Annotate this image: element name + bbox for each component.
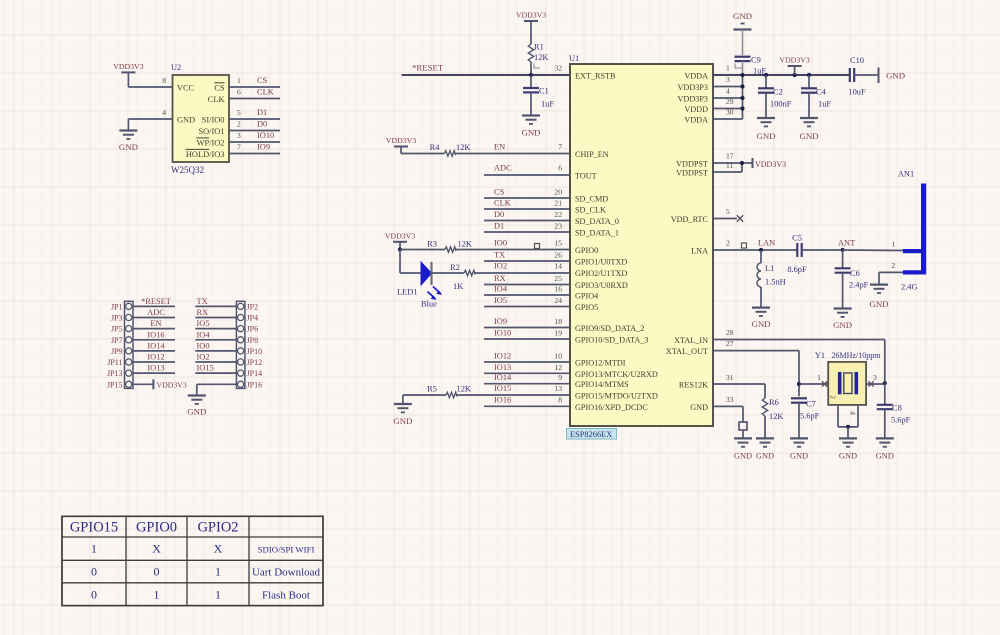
label JP16 [247, 380, 263, 389]
wire U2 pin 3 net IO10 [229, 131, 280, 142]
svg-text:X: X [214, 542, 223, 556]
svg-text:SD_DATA_1: SD_DATA_1 [575, 229, 619, 238]
svg-text:3: 3 [873, 373, 877, 382]
svg-text:TOUT: TOUT [575, 172, 597, 181]
svg-text:CLK: CLK [208, 95, 225, 104]
svg-text:GND: GND [799, 131, 818, 141]
svg-text:RES12K: RES12K [679, 381, 708, 390]
resistor R6 12K [713, 373, 783, 438]
ground bar (C10) [874, 68, 905, 84]
capacitor C8 5.6pF [877, 383, 911, 438]
svg-text:D0: D0 [494, 210, 504, 219]
boot mode table [62, 516, 323, 605]
wire IO15 (right header row 7) [195, 364, 236, 374]
wire TX net (pin 26) [484, 251, 570, 262]
svg-text:GND: GND [734, 452, 752, 461]
svg-text:IO15: IO15 [197, 364, 214, 373]
ground (U2) [119, 131, 138, 153]
svg-text:XTAL_OUT: XTAL_OUT [666, 347, 708, 356]
wire IO14 (left header row 5) [133, 341, 175, 351]
wire U2 pin 5 net D1 [229, 108, 280, 119]
resistor R1 12K [528, 33, 548, 75]
svg-text:EN: EN [494, 143, 505, 152]
wire VDD bus (pin 1 row) [713, 64, 849, 76]
svg-text:GPIO3/U0RXD: GPIO3/U0RXD [575, 281, 628, 290]
svg-text:GND: GND [756, 452, 774, 461]
wire CS net (pin 20) [484, 188, 570, 199]
svg-text:GND: GND [393, 416, 412, 426]
ground (antenna) 2.4G [869, 283, 917, 310]
svg-text:GPIO15: GPIO15 [70, 520, 118, 536]
svg-text:15: 15 [554, 239, 562, 248]
svg-text:20: 20 [554, 188, 562, 197]
wire RX net (pin 25) [484, 274, 570, 285]
svg-text:29: 29 [726, 97, 734, 106]
svg-text:R6: R6 [769, 398, 779, 407]
svg-text:IO2: IO2 [197, 353, 210, 362]
svg-text:GND: GND [833, 320, 852, 330]
svg-text:10: 10 [554, 352, 562, 361]
wire ADC net [484, 164, 570, 176]
wire CLK net (pin 21) [484, 199, 570, 210]
svg-text:3: 3 [726, 75, 730, 84]
svg-text:R5: R5 [427, 385, 437, 394]
pad (pin 33) [739, 422, 747, 438]
wire IO10 net (pin 19) [484, 329, 570, 340]
wire RX (right header row 2) [195, 308, 236, 318]
svg-text:SO/IO1: SO/IO1 [198, 127, 224, 136]
flash chip U2 W25Q32 [171, 63, 229, 175]
capacitor C9 1uF [735, 56, 767, 76]
resistor R2 1K [431, 263, 570, 291]
svg-text:JP9: JP9 [111, 347, 123, 356]
svg-text:ADC: ADC [147, 308, 165, 317]
svg-text:3: 3 [237, 131, 241, 140]
ground (R5) [393, 404, 412, 426]
svg-text:8: 8 [162, 76, 166, 85]
ground (JP16) [187, 396, 206, 417]
label JP11 [107, 358, 122, 367]
svg-text:JP4: JP4 [247, 314, 259, 323]
table row Uart Download [91, 565, 321, 579]
svg-text:6: 6 [237, 88, 241, 97]
wire IO12 (left header row 6) [133, 353, 175, 363]
wire IO5 net (pin 24) [484, 296, 570, 307]
svg-text:L1: L1 [765, 264, 774, 273]
ground (R6) [756, 438, 774, 460]
wire IO12 net (pin 10) [484, 352, 570, 363]
svg-text:GND: GND [790, 452, 808, 461]
svg-text:R2: R2 [450, 263, 460, 272]
svg-text:12: 12 [554, 363, 562, 372]
svg-text:24: 24 [554, 296, 562, 305]
svg-text:GND: GND [733, 11, 752, 21]
svg-text:13: 13 [554, 384, 562, 393]
label JP6 [247, 325, 259, 334]
node junction R1/C1/RESET [529, 73, 533, 77]
label JP8 [247, 336, 259, 345]
svg-text:U1: U1 [569, 54, 579, 63]
capacitor C4 1uF [801, 75, 831, 118]
wire XTAL_IN (pin 28) [713, 328, 885, 383]
svg-text:1: 1 [215, 565, 221, 579]
label JP7 [111, 336, 123, 345]
svg-text:*RESET: *RESET [412, 63, 444, 73]
wire IO13 (left header row 7) [133, 364, 175, 374]
svg-text:Y1: Y1 [815, 351, 825, 360]
svg-text:33: 33 [726, 395, 734, 404]
svg-text:GPIO0: GPIO0 [575, 246, 598, 255]
svg-text:IO4: IO4 [197, 330, 211, 339]
svg-text:VDD3V3: VDD3V3 [755, 160, 786, 169]
svg-text:100nF: 100nF [770, 100, 792, 109]
svg-text:2: 2 [829, 395, 838, 399]
svg-text:D0: D0 [257, 120, 267, 129]
label IO2 net [494, 262, 562, 271]
svg-text:1: 1 [91, 542, 97, 556]
resistor R5 12K [403, 385, 484, 405]
capacitor C5 8.6pF [787, 234, 840, 275]
wire *RESET (left header row 1) [133, 297, 175, 307]
node junction C6/ANT [838, 239, 855, 253]
svg-text:JP10: JP10 [247, 347, 263, 356]
svg-text:VDD3V3: VDD3V3 [113, 62, 143, 71]
wire LED anode [400, 250, 421, 274]
svg-text:Uart Download: Uart Download [252, 567, 321, 579]
ground (C9 top) [733, 11, 752, 55]
wire IO15 net [484, 384, 570, 395]
svg-text:CHIP_EN: CHIP_EN [575, 150, 609, 159]
svg-text:2: 2 [891, 261, 895, 270]
power port VDD3V3 (U2) [113, 62, 143, 87]
svg-text:LAN: LAN [758, 239, 775, 248]
svg-text:1: 1 [215, 588, 221, 602]
svg-text:IO9: IO9 [257, 143, 270, 152]
svg-text:26MHz/10ppm: 26MHz/10ppm [832, 351, 882, 360]
svg-text:VDD3V3: VDD3V3 [157, 380, 187, 389]
svg-text:GPIO0: GPIO0 [136, 520, 177, 536]
wire IO0 net [484, 239, 570, 250]
svg-text:EXT_RSTB: EXT_RSTB [575, 72, 616, 81]
svg-text:31: 31 [726, 373, 734, 382]
svg-text:VDDD: VDDD [684, 105, 708, 114]
power port VDD3V3 (LED1) [385, 231, 415, 249]
label JP13 [107, 369, 123, 378]
svg-text:4: 4 [849, 411, 858, 415]
ground (C4) [799, 118, 818, 141]
svg-text:WP/IO2: WP/IO2 [197, 139, 225, 148]
svg-text:X: X [152, 542, 161, 556]
svg-text:GPIO13/MTCK/U2RXD: GPIO13/MTCK/U2RXD [575, 370, 658, 379]
svg-text:18: 18 [554, 317, 562, 326]
svg-text:C10: C10 [850, 56, 864, 65]
svg-text:JP14: JP14 [247, 369, 263, 378]
svg-text:17: 17 [726, 152, 734, 161]
svg-text:C7: C7 [806, 400, 816, 409]
svg-text:IO5: IO5 [197, 319, 210, 328]
svg-text:*RESET: *RESET [141, 297, 171, 306]
svg-text:GPIO2/U1TXD: GPIO2/U1TXD [575, 269, 627, 278]
wire crystal pins 2/4 to GND [829, 395, 859, 438]
svg-text:JP7: JP7 [111, 336, 123, 345]
svg-text:VDDPST: VDDPST [676, 169, 708, 178]
svg-text:IO10: IO10 [494, 329, 511, 338]
svg-text:Blue: Blue [421, 300, 437, 309]
svg-text:D1: D1 [257, 108, 267, 117]
svg-text:GPIO12/MTDI: GPIO12/MTDI [575, 359, 626, 368]
svg-text:12K: 12K [458, 240, 472, 249]
svg-text:11: 11 [726, 161, 734, 170]
svg-text:JP15: JP15 [107, 380, 123, 389]
svg-text:C8: C8 [892, 404, 902, 413]
node junction C8/crystal pin 3 [883, 381, 887, 385]
svg-text:VDD_RTC: VDD_RTC [671, 215, 709, 224]
svg-text:6: 6 [558, 164, 562, 173]
svg-text:GPIO1/U0TXD: GPIO1/U0TXD [575, 258, 627, 267]
wire GND pin 33 [713, 395, 743, 422]
svg-text:8: 8 [558, 395, 562, 404]
node junction L1 [759, 248, 763, 252]
svg-text:2.4G: 2.4G [901, 283, 918, 292]
svg-text:SD_CLK: SD_CLK [575, 206, 606, 215]
svg-text:VDD3P3: VDD3P3 [678, 95, 708, 104]
wire U2 pin 7 net IO9 [229, 143, 280, 154]
svg-text:IO2: IO2 [494, 262, 507, 271]
svg-text:GPIO15/MTDO/U2TXD: GPIO15/MTDO/U2TXD [575, 392, 658, 401]
wire IO5 (right header row 3) [195, 319, 236, 329]
svg-text:1: 1 [154, 588, 160, 602]
svg-text:GND: GND [177, 116, 195, 125]
ground (crystal) [839, 438, 857, 460]
svg-text:JP8: JP8 [247, 336, 259, 345]
table row Flash Boot [91, 588, 310, 602]
svg-text:5: 5 [726, 207, 730, 216]
svg-text:CS: CS [257, 76, 268, 85]
svg-text:IO12: IO12 [147, 353, 164, 362]
svg-text:GPIO10/SD_DATA_3: GPIO10/SD_DATA_3 [575, 336, 649, 345]
wire XTAL_OUT (pin 27) [713, 339, 799, 396]
svg-text:JP12: JP12 [247, 358, 263, 367]
svg-text:10uF: 10uF [848, 88, 866, 97]
svg-text:30: 30 [726, 108, 734, 117]
svg-text:Flash Boot: Flash Boot [262, 590, 310, 602]
svg-text:RX: RX [494, 274, 506, 283]
wire D0 net (pin 22) [484, 210, 570, 221]
power port VDD3V3 (R1) [516, 11, 546, 34]
svg-text:CS: CS [214, 84, 225, 93]
wire IO16 (left header row 4) [133, 330, 175, 340]
svg-text:VCC: VCC [177, 84, 195, 93]
svg-text:0: 0 [91, 588, 97, 602]
svg-text:1: 1 [237, 76, 241, 85]
no-ERC marker (GPIO0) [535, 244, 540, 249]
svg-text:IO15: IO15 [494, 384, 511, 393]
svg-text:5.6pF: 5.6pF [891, 416, 911, 425]
label JP15 [107, 380, 123, 389]
svg-text:JP11: JP11 [107, 358, 122, 367]
svg-text:XTAL_IN: XTAL_IN [674, 336, 708, 345]
svg-text:27: 27 [726, 339, 734, 348]
svg-text:0: 0 [154, 565, 160, 579]
svg-text:R4: R4 [430, 143, 441, 152]
svg-text:GND: GND [756, 131, 775, 141]
svg-text:C2: C2 [773, 88, 783, 97]
svg-text:LED1: LED1 [397, 288, 417, 297]
label JP9 [111, 347, 123, 356]
svg-text:GPIO2: GPIO2 [197, 520, 238, 536]
node junction VDD/R3/LED [398, 247, 402, 251]
svg-text:R3: R3 [427, 240, 437, 249]
power port VDD3V3 (R4) [386, 136, 416, 154]
wire U2 pin 2 net D0 [229, 120, 280, 131]
svg-text:16: 16 [554, 285, 562, 294]
capacitor C10 10uF [848, 56, 874, 97]
svg-text:C5: C5 [792, 234, 802, 243]
svg-text:GPIO9/SD_DATA_2: GPIO9/SD_DATA_2 [575, 324, 644, 333]
svg-text:2: 2 [237, 120, 241, 129]
wire IO4 net (pin 16) [484, 285, 570, 296]
svg-text:GPIO5: GPIO5 [575, 303, 598, 312]
svg-text:U2: U2 [171, 63, 181, 72]
resistor R3 12K [400, 240, 484, 253]
ground (C8) [876, 438, 894, 460]
svg-text:VDDA: VDDA [684, 72, 708, 81]
svg-text:C4: C4 [816, 88, 827, 97]
svg-text:1K: 1K [453, 282, 463, 291]
ground (C7) [790, 438, 808, 460]
table row SDIO/SPI WIFI [91, 542, 314, 556]
wire crystal pin 1 [799, 373, 828, 387]
svg-text:VDD3P3: VDD3P3 [678, 83, 708, 92]
svg-text:4: 4 [726, 87, 730, 96]
svg-text:GND: GND [119, 142, 138, 152]
svg-text:1uF: 1uF [818, 100, 831, 109]
ground (pin 33) [734, 438, 752, 460]
svg-text:JP1: JP1 [111, 302, 123, 311]
svg-text:VDDA: VDDA [684, 116, 708, 125]
svg-text:IO13: IO13 [147, 364, 164, 373]
wire IO2 (right header row 6) [195, 353, 236, 363]
node junctions on VDD bus [740, 73, 811, 111]
svg-text:1: 1 [817, 373, 821, 382]
wire *RESET net [402, 63, 570, 76]
svg-text:HOLD/IO3: HOLD/IO3 [186, 150, 225, 159]
svg-text:9: 9 [558, 373, 562, 382]
svg-text:1uF: 1uF [541, 100, 554, 109]
svg-text:IO0: IO0 [494, 239, 507, 248]
wire EN net [484, 142, 570, 154]
svg-text:IO14: IO14 [147, 341, 165, 350]
svg-text:19: 19 [554, 329, 562, 338]
svg-text:4: 4 [162, 108, 166, 117]
svg-text:CLK: CLK [257, 88, 274, 97]
svg-text:D1: D1 [494, 222, 504, 231]
svg-text:JP5: JP5 [111, 325, 123, 334]
capacitor C1 1uF [523, 75, 554, 116]
svg-text:GND: GND [187, 407, 206, 417]
wire IO0 (right header row 5) [195, 341, 236, 351]
wire EN (left header row 3) [133, 319, 175, 329]
svg-text:23: 23 [554, 222, 562, 231]
svg-text:IO10: IO10 [257, 131, 274, 140]
power port VDD3V3 (JP15) [133, 379, 187, 389]
node junction C7/crystal pin 1 [797, 382, 801, 386]
svg-text:ADC: ADC [494, 164, 512, 173]
label JP2 [247, 302, 259, 311]
label ESP8266EX [567, 429, 617, 440]
svg-text:CLK: CLK [494, 199, 511, 208]
wire pins 3/4/29/30 to bus [713, 75, 743, 119]
svg-text:VDD3V3: VDD3V3 [386, 136, 416, 145]
svg-text:IO0: IO0 [197, 341, 210, 350]
svg-text:32: 32 [554, 64, 562, 73]
svg-text:TX: TX [494, 251, 505, 260]
wire ADC (left header row 2) [133, 308, 175, 318]
svg-text:21: 21 [554, 199, 562, 208]
ground (L1) [751, 308, 770, 329]
svg-text:7: 7 [558, 142, 562, 151]
svg-text:R1: R1 [534, 43, 544, 52]
svg-text:ESP8266EX: ESP8266EX [570, 430, 612, 439]
power port VDD3V3 (bus) [779, 56, 809, 76]
svg-text:8.6pF: 8.6pF [787, 265, 807, 274]
svg-text:W25Q32: W25Q32 [171, 165, 204, 175]
ground (C2) [756, 118, 775, 141]
crystal Y1 26MHz/10ppm [815, 351, 881, 405]
svg-text:26: 26 [554, 251, 562, 260]
svg-text:28: 28 [726, 328, 734, 337]
ground (C6) [833, 309, 852, 331]
svg-text:1: 1 [891, 240, 895, 249]
svg-text:ANT: ANT [838, 239, 855, 248]
svg-text:12K: 12K [457, 385, 471, 394]
wire GND (JP16) [197, 384, 237, 395]
svg-text:5.6pF: 5.6pF [800, 412, 820, 421]
no-connect (pin 5 VDD_RTC) [713, 207, 743, 222]
wire ANT to antenna [843, 240, 903, 251]
svg-text:JP6: JP6 [247, 325, 259, 334]
svg-text:GND: GND [521, 128, 540, 138]
svg-text:JP13: JP13 [107, 369, 123, 378]
svg-text:IO16: IO16 [147, 330, 164, 339]
svg-text:IO12: IO12 [494, 352, 511, 361]
svg-text:14: 14 [554, 262, 562, 271]
wire U2 pin 1 net CS [229, 76, 280, 87]
svg-text:7: 7 [237, 143, 241, 152]
svg-text:JP2: JP2 [247, 302, 259, 311]
antenna AN1 [898, 170, 924, 275]
svg-text:GND: GND [886, 71, 905, 81]
svg-text:CS: CS [494, 188, 505, 197]
svg-text:VDD3V3: VDD3V3 [385, 231, 415, 240]
power port VDD3V3 (pin 17) [713, 152, 786, 173]
svg-text:C1: C1 [539, 87, 549, 96]
wire IO4 (right header row 4) [195, 330, 236, 340]
svg-text:12K: 12K [456, 143, 470, 152]
svg-text:SD_DATA_0: SD_DATA_0 [575, 217, 619, 226]
label JP5 [111, 325, 123, 334]
inductor L1 1.5nH [757, 250, 786, 308]
wire U2 VCC pin 8 [128, 76, 172, 87]
label JP1 [111, 302, 123, 311]
svg-text:25: 25 [554, 274, 562, 283]
no-ERC marker (LNA) [742, 243, 747, 248]
capacitor C6 2.4pF [835, 250, 869, 309]
svg-text:12K: 12K [769, 412, 783, 421]
svg-text:SI/IO0: SI/IO0 [202, 116, 225, 125]
wire IO9 net (pin 18) [484, 317, 570, 328]
wire antenna pin 2 to GND [879, 261, 903, 285]
